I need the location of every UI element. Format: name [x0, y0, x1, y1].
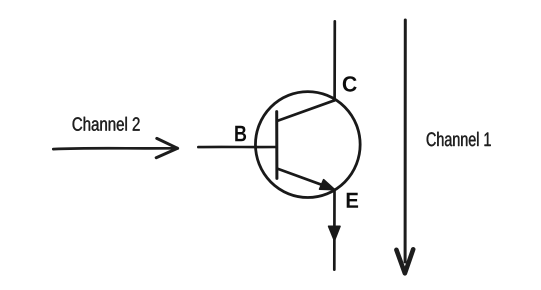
pin label B [235, 126, 246, 142]
current arrowhead on emitter wire [329, 226, 340, 240]
wire: emitter down [333, 190, 336, 270]
arrow: Channel 1 open arrowhead [396, 249, 413, 273]
arrow: Channel 1 shaft [404, 20, 407, 262]
transistor Q1 collector stroke [277, 100, 335, 121]
arrow: Channel 2 open arrowhead [156, 138, 177, 157]
transistor Q1 base bar [275, 112, 278, 179]
pin label C [343, 76, 357, 92]
arrow: Channel 2 input shaft [53, 147, 176, 151]
label: Channel 1 [427, 132, 491, 146]
transistor Q1 emitter stroke [277, 169, 330, 188]
transistor Q1 body circle [255, 92, 360, 198]
pin label E [347, 193, 358, 208]
label: Channel 2 [73, 117, 140, 131]
transistor Q1 emitter arrowhead [320, 180, 335, 190]
wire: base lead [198, 146, 276, 149]
wire: collector up to top [333, 21, 336, 100]
